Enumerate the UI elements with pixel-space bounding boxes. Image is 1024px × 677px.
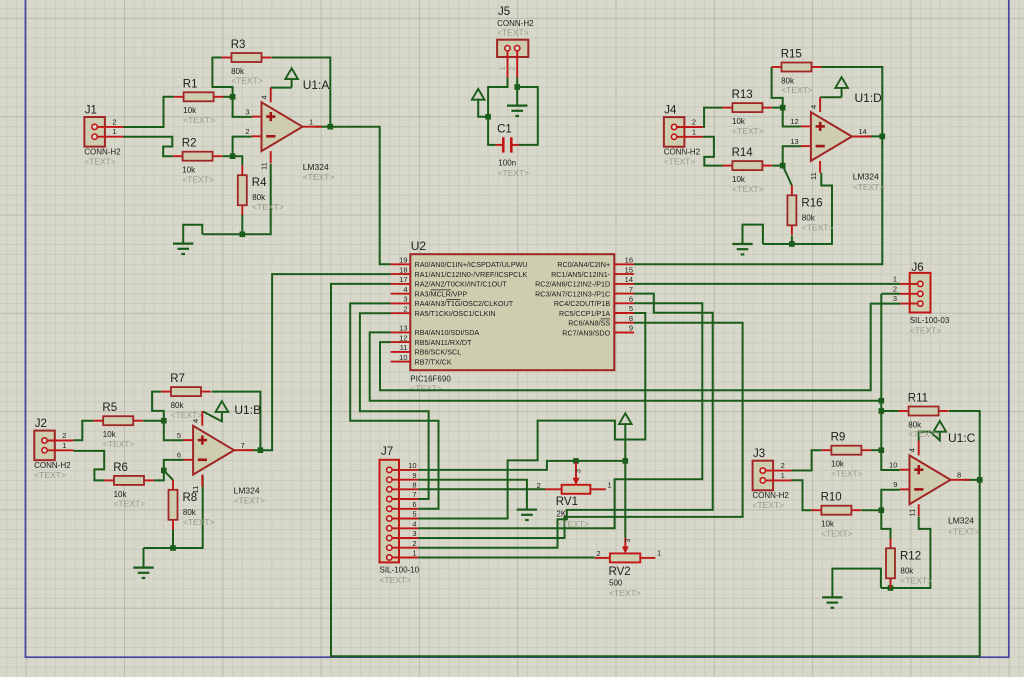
wire ground stem U1:B [143,548,145,568]
wire J7 pin6 to U2 pin3 RA4 [350,303,438,508]
resistor R1 [174,78,224,125]
svg-text:6: 6 [412,500,416,509]
wire J6 pin3 to RB5 [380,304,900,391]
resistor R7 [161,373,211,420]
svg-text:R4: R4 [252,177,267,189]
resistor R8 [169,480,215,530]
resistor R14 [723,147,773,194]
svg-text:11: 11 [400,343,408,352]
power arrow RV1/RV2 [619,413,632,461]
wire U1:D output to node D3 [864,135,882,137]
resistor R15 [772,49,822,96]
pin 3 U2 left (RA4) [391,295,514,309]
node C6 junction RB4 line [879,398,885,404]
ground U1:A [173,244,193,254]
wire node B2 diagonal to R8 top [164,470,173,480]
pin 7 U2 right (RC3) [535,285,634,299]
svg-text:<TEXT>: <TEXT> [34,470,66,480]
wire U1:B output to U2 pin 18 RA1 [260,274,390,450]
resistor R3 [222,39,272,86]
svg-text:3: 3 [403,295,407,304]
pin 13 U2 left (RB4) [391,324,480,338]
node D3 output junction [880,134,886,140]
wire J7 pin10 to RV1 wiper rail [418,461,625,470]
svg-text:U1:C: U1:C [948,431,976,445]
node B1 junction [161,418,167,424]
connector J5 [497,6,534,77]
svg-text:80k: 80k [183,508,197,517]
svg-text:RA5/T1CKI/OSC1/CLKIN: RA5/T1CKI/OSC1/CLKIN [415,309,496,318]
svg-text:R6: R6 [113,462,128,474]
svg-text:RC5/CCP1/P1A: RC5/CCP1/P1A [559,309,610,318]
svg-text:10k: 10k [732,117,746,126]
op-amp U1:C [900,441,970,517]
wire J4 pin1 to R14 [703,137,723,166]
svg-text:2: 2 [412,539,416,548]
wire node C2 to U1:C minus input [881,490,899,511]
svg-text:80k: 80k [802,213,816,222]
resistor R9 [822,432,872,479]
svg-text:6: 6 [629,295,633,304]
svg-text:J5: J5 [498,6,510,18]
svg-text:19: 19 [399,256,407,265]
svg-text:U1:B: U1:B [234,403,261,417]
node B3 output junction [258,447,264,453]
wire R16 bottom to ground rail [791,236,793,244]
svg-text:<TEXT>: <TEXT> [732,126,764,136]
svg-text:10k: 10k [182,166,196,175]
wire U1:C output loop to U2 pin 17 RA2 [331,284,980,656]
svg-text:<TEXT>: <TEXT> [752,500,784,510]
svg-text:1: 1 [657,549,661,558]
svg-text:2: 2 [510,67,517,71]
svg-text:1: 1 [112,127,116,136]
svg-text:<TEXT>: <TEXT> [114,499,146,509]
wire U1:A output to node A3 [315,126,331,128]
wire node D2 to U1:D minus input [783,146,801,165]
svg-text:10k: 10k [821,520,835,529]
svg-text:3: 3 [245,108,249,117]
svg-text:1: 1 [692,127,696,136]
svg-text:LM324: LM324 [303,162,329,172]
resistor R12 [886,539,932,589]
wire ground rail jog U1:D [743,225,763,244]
pin 18 U2 left (RA1) [391,265,528,279]
svg-text:<TEXT>: <TEXT> [171,410,203,420]
resistor R11 [899,393,949,440]
wire U1:D pin11 to ground rail [763,173,832,244]
wire J7 pin2 to U2 pin7 RC3 [418,294,712,548]
wire node A2 to U1:A minus input [233,137,252,157]
svg-text:RC4/C2OUT/P1B: RC4/C2OUT/P1B [554,299,611,308]
potentiometer RV2 [595,538,661,598]
svg-text:2: 2 [245,127,249,136]
svg-text:7: 7 [241,441,245,450]
wire R15 right to U1:D output node [820,67,882,136]
svg-text:CONN-H2: CONN-H2 [664,148,701,157]
svg-text:U1:D: U1:D [855,91,883,105]
wire ground rail jog U1:A [183,225,202,244]
svg-text:<TEXT>: <TEXT> [410,384,442,394]
svg-text:<TEXT>: <TEXT> [103,439,135,449]
svg-text:<TEXT>: <TEXT> [948,527,980,537]
connector J2 [34,418,73,480]
svg-text:2: 2 [692,118,696,127]
wire J5 pin1 to C1 left column [488,77,507,117]
pin 17 U2 left (RA2) [391,275,508,289]
svg-text:SIL-100-10: SIL-100-10 [380,566,420,575]
pin 6 U2 right (RC4) [554,295,634,309]
svg-text:J2: J2 [35,418,47,430]
svg-text:5: 5 [629,304,633,313]
power arrow U1:B [216,401,229,412]
svg-text:10k: 10k [103,430,117,439]
svg-text:<TEXT>: <TEXT> [183,517,215,527]
svg-text:RV2: RV2 [609,566,631,578]
svg-text:RA4/AN3/T1G/OSC2/CLKOUT: RA4/AN3/T1G/OSC2/CLKOUT [415,299,514,308]
svg-text:R1: R1 [183,78,198,90]
svg-text:RV1: RV1 [556,496,578,508]
wire U2 pin14 RC2 to J6 pin1 [634,283,900,285]
svg-text:4: 4 [908,448,917,452]
svg-text:10: 10 [399,353,407,362]
op-amp U1:D [801,97,871,173]
svg-text:4: 4 [403,285,407,294]
svg-text:RB7/TX/CK: RB7/TX/CK [415,357,452,366]
wire R13 right to node D1 [772,107,782,109]
svg-text:3: 3 [625,539,632,543]
resistor R10 [812,492,862,539]
svg-text:RC1/AN5/C12IN1-: RC1/AN5/C12IN1- [551,270,611,279]
svg-text:<TEXT>: <TEXT> [84,157,116,167]
svg-text:<TEXT>: <TEXT> [910,326,942,336]
svg-text:RC7/AN9/SDO: RC7/AN9/SDO [562,328,610,337]
wire J4 pin2 to R13 [703,108,723,127]
svg-text:<TEXT>: <TEXT> [498,168,530,178]
ground U1:D [732,244,752,254]
svg-text:4: 4 [260,95,269,99]
wire J7 pin3 to U2 pin8 RC6 [418,323,742,538]
node E2 junction [514,84,520,90]
svg-text:4: 4 [191,419,200,423]
wire U1:C pin11 to ground loop [881,517,931,588]
svg-text:LM324: LM324 [853,172,879,182]
svg-text:2: 2 [781,461,785,470]
wire power column to RV2 wiper [624,461,626,538]
connector J7 SIL-100-10 [380,446,420,585]
svg-text:<TEXT>: <TEXT> [183,115,215,125]
pin 14 U2 right (RC2) [535,275,634,289]
pin 2 U2 left (RA5) [391,304,496,318]
wire R3 left to node A1 [212,58,232,97]
svg-text:10k: 10k [183,106,197,115]
svg-text:15: 15 [625,265,633,274]
wire R11 left to column [881,410,899,412]
wire J3 pin2 to R9 [791,450,821,470]
connector J3 [752,448,791,510]
ground J5 [507,106,527,116]
svg-text:CONN-H2: CONN-H2 [752,491,789,500]
pin 5 U2 right (RC5) [559,304,634,318]
svg-text:R7: R7 [170,373,185,385]
svg-text:RA1/AN1/C12IN0-/VREF/ICSPCLK: RA1/AN1/C12IN0-/VREF/ICSPCLK [415,270,528,279]
svg-text:2K: 2K [556,510,566,519]
svg-text:1: 1 [412,549,416,558]
svg-text:8: 8 [629,314,633,323]
svg-text:5: 5 [412,510,416,519]
svg-text:LM324: LM324 [234,486,260,496]
svg-text:RB4/AN10/SDI/SDA: RB4/AN10/SDI/SDA [415,328,480,337]
svg-text:18: 18 [399,265,407,274]
svg-text:80k: 80k [252,193,266,202]
svg-text:RA3/MCLR/VPP: RA3/MCLR/VPP [415,290,468,299]
node F2 power junction [623,458,629,464]
power arrow U1:D [835,77,848,97]
svg-text:RB6/SCK/SCL: RB6/SCK/SCL [415,348,462,357]
svg-text:10: 10 [889,461,897,470]
svg-text:<TEXT>: <TEXT> [781,85,813,95]
power arrow J5 [472,89,485,100]
svg-text:RC3/AN7/C12IN3-/P1C: RC3/AN7/C12IN3-/P1C [535,289,610,298]
wire J7 pin1 to RV2 pin2 [418,557,595,559]
svg-text:11: 11 [260,162,269,170]
svg-text:9: 9 [893,480,897,489]
pin 10 U2 left (RB7) [391,353,452,367]
svg-text:RC6/AN8/SS: RC6/AN8/SS [568,319,610,328]
node D4 ground rail junction [789,241,795,247]
svg-text:R9: R9 [831,432,846,444]
svg-text:J4: J4 [664,105,677,117]
wire R3 right to U1:A output node [272,58,331,127]
wire R9 right to node C1 [871,449,881,451]
pin 15 U2 right (RC1) [551,265,634,279]
wire J1 pin2 to R1 [123,97,174,127]
wire U1:D output to U2 pin 16 RC0 [634,136,882,264]
svg-text:<TEXT>: <TEXT> [732,184,764,194]
svg-text:6: 6 [177,451,181,460]
wire J7 pin4 to U2 pin6 RC4 [418,303,702,528]
ground U1:B [133,568,153,578]
pin 11 U2 left (RB6) [391,343,462,357]
resistor R5 [93,402,143,449]
svg-text:<TEXT>: <TEXT> [908,429,940,439]
svg-text:<TEXT>: <TEXT> [558,519,590,529]
pin 19 U2 left (RA0) [391,256,528,270]
wire node C2 to R12 top [881,510,890,538]
wire power arrow to node E1 [478,99,488,117]
svg-text:80k: 80k [908,420,922,429]
wire node A1 to U1:A plus input [233,97,252,117]
wire U1:C output to node C3 [963,479,980,481]
resistor R2 [173,138,223,185]
svg-text:R12: R12 [900,550,921,562]
svg-text:<TEXT>: <TEXT> [231,76,263,86]
svg-text:<TEXT>: <TEXT> [831,468,863,478]
wire R2 right to node A2 [223,155,233,157]
svg-text:R2: R2 [182,138,197,150]
wire node A2 to R4 top [233,156,243,165]
node C5 junction R11 left [879,408,885,414]
svg-text:CONN-H2: CONN-H2 [34,461,71,470]
svg-text:R3: R3 [231,39,246,51]
svg-text:<TEXT>: <TEXT> [497,28,529,38]
node A2 junction [230,153,236,159]
pin 16 U2 right (RC0) [557,256,634,270]
wire R1 right to node A1 [223,96,233,98]
svg-text:14: 14 [625,275,633,284]
pin 12 U2 left (RB5) [391,333,472,347]
wire U2 pin13 RB4 to U1:C column [370,332,882,400]
svg-text:100n: 100n [498,159,516,168]
svg-text:2: 2 [112,117,116,126]
resistor R6 [104,462,154,509]
wire U1:B pin11 to ground rail [144,476,203,548]
svg-text:12: 12 [790,117,798,126]
svg-text:<TEXT>: <TEXT> [900,575,932,585]
node D1 junction [780,105,786,111]
svg-text:11: 11 [191,486,200,494]
svg-text:<TEXT>: <TEXT> [853,182,885,192]
svg-text:10: 10 [408,461,416,470]
svg-text:4: 4 [809,105,818,109]
wire J3 pin1 to R10 [791,480,811,510]
svg-text:RA2/AN2/T0CKI/INT/C1OUT: RA2/AN2/T0CKI/INT/C1OUT [415,280,508,289]
svg-text:9: 9 [412,471,416,480]
svg-text:2: 2 [403,304,407,313]
wire J7 pin8 to RV1 pin2 [418,488,545,490]
node B2 junction [161,468,167,474]
wire R14 right to node D2 [772,165,782,167]
potentiometer RV1 [537,462,612,529]
svg-text:U2: U2 [411,239,427,253]
wire U1:A pin4 to power [271,87,292,89]
svg-text:2: 2 [893,284,897,293]
wire ground stem U1:C [832,569,881,598]
svg-text:1: 1 [781,471,785,480]
wire U1:A output to U2 pin 19 RA0 [330,127,390,265]
capacitor C1 [496,124,530,179]
svg-text:2: 2 [62,431,66,440]
node C4 ground junction [888,585,894,591]
svg-text:1: 1 [62,441,66,450]
wire node B1 to U1:B plus input [164,421,184,441]
svg-text:<TEXT>: <TEXT> [252,202,284,212]
svg-text:80k: 80k [781,76,795,85]
wire R15 left to node D1 [772,67,783,108]
node C1 junction on non-inverting column [879,447,885,453]
svg-text:80k: 80k [171,401,185,410]
svg-text:R15: R15 [781,49,802,61]
svg-text:R14: R14 [732,147,754,159]
node F1 RV1 wiper junction [573,458,579,464]
pin 8 U2 right (RC6) [568,314,634,328]
svg-text:10k: 10k [114,490,128,499]
ground U1:C [822,597,842,607]
svg-text:1: 1 [500,67,507,71]
svg-text:SIL-100-03: SIL-100-03 [910,316,950,325]
wire U1:C pin4 diagonal to power [919,432,940,441]
wire R12 bottom to ground loop [890,578,892,588]
svg-text:<TEXT>: <TEXT> [303,172,335,182]
svg-text:LM324: LM324 [948,516,974,526]
wire J7 pin5 to U2 pin5 RC5 [418,313,645,519]
svg-text:16: 16 [625,256,633,265]
op-amp U1:B [183,411,253,487]
wire J2 pin1 to R6 [73,451,104,481]
wire R7 left to node B1 [152,392,164,421]
power arrow U1:C [934,421,947,432]
wire node D2 diagonal to R16 top [783,166,792,186]
svg-text:<TEXT>: <TEXT> [234,496,266,506]
node A1 junction [230,94,236,100]
svg-text:2: 2 [596,549,600,558]
svg-text:5: 5 [177,431,181,440]
node E1 junction power/C1 [485,114,491,120]
svg-text:80k: 80k [900,566,914,575]
wire node D1 to U1:D plus input [783,108,801,127]
svg-text:3: 3 [893,294,897,303]
ground J7 pin9 [517,510,537,520]
connector J4 [664,105,703,167]
wire R5 right to node B1 [143,420,164,422]
svg-text:3: 3 [576,469,583,473]
wire U1:B output to node B3 [246,449,260,451]
svg-text:R13: R13 [732,89,753,101]
wire R6 right to minus column [154,460,184,481]
svg-text:8: 8 [957,471,961,480]
wire R7 right to U1:B output node [212,392,261,451]
svg-text:J6: J6 [912,262,924,274]
connector J6 SIL-100-03 [893,262,950,336]
resistor R4 [238,165,284,215]
svg-text:8: 8 [412,481,416,490]
svg-text:R16: R16 [801,197,822,209]
svg-text:2: 2 [537,481,541,490]
svg-text:9: 9 [629,324,633,333]
wire node E1 down to C1 left [488,117,496,145]
svg-text:12: 12 [399,333,407,342]
svg-text:RC0/AN4/C2IN+: RC0/AN4/C2IN+ [557,260,610,269]
wire node E2 to C1 right [517,87,538,145]
wire U1:A pin11 to ground rail [202,164,270,235]
node A4 ground rail junction [240,232,246,238]
svg-text:<TEXT>: <TEXT> [821,528,853,538]
wire J7 pin7 to U2 pin2 RA5 [360,313,429,499]
wire R11 right to U1:C output node [949,411,980,480]
resistor R13 [723,89,773,136]
wire J5 pin2 to ground [516,77,518,105]
svg-text:1: 1 [893,274,897,283]
wire R8 bottom to ground rail [172,529,174,548]
wire U1:B pin4 diagonal to power [203,411,222,421]
svg-text:11: 11 [809,172,818,180]
svg-text:U1:A: U1:A [303,78,330,92]
svg-text:<TEXT>: <TEXT> [609,588,641,598]
svg-text:<TEXT>: <TEXT> [664,157,696,167]
svg-text:13: 13 [399,324,407,333]
svg-text:R10: R10 [821,492,842,504]
svg-text:3: 3 [412,529,416,538]
wire R10 right to node C2 [861,509,881,511]
node B4 ground rail junction [170,545,176,551]
svg-text:7: 7 [412,490,416,499]
svg-text:<TEXT>: <TEXT> [182,174,214,184]
svg-text:J1: J1 [85,105,97,117]
svg-text:CONN-H2: CONN-H2 [84,148,121,157]
svg-text:4: 4 [412,520,416,529]
svg-text:<TEXT>: <TEXT> [380,575,412,585]
svg-text:RA0/AN0/C1IN+/ICSPDAT/ULPWU: RA0/AN0/C1IN+/ICSPDAT/ULPWU [415,260,528,269]
